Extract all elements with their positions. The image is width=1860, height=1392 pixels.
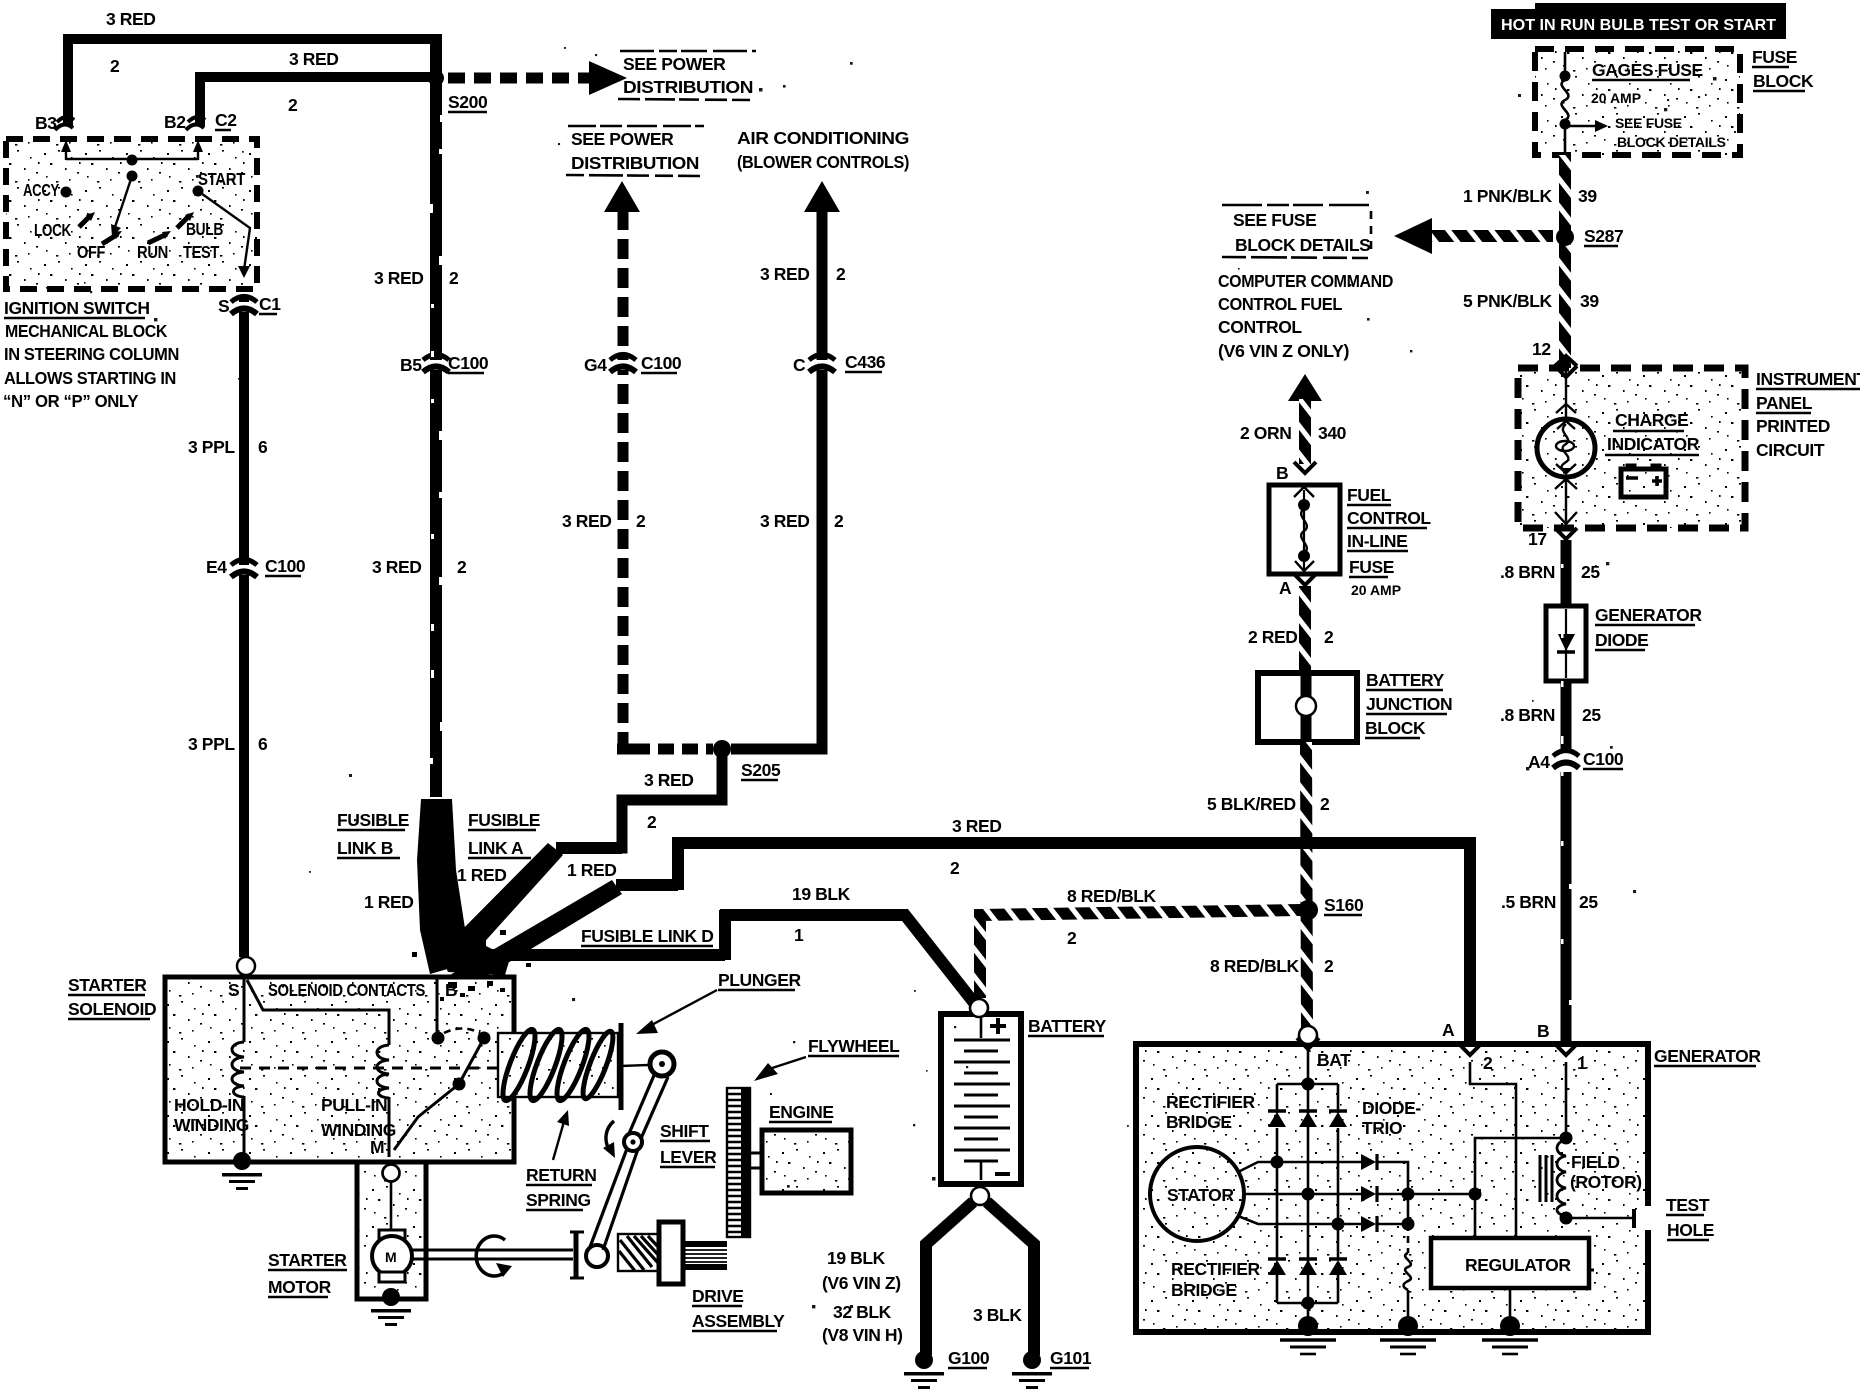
svg-text:(V6 VIN Z ONLY): (V6 VIN Z ONLY) [1218,341,1349,361]
svg-text:PLUNGER: PLUNGER [718,970,802,990]
svg-text:TRIO: TRIO [1362,1118,1402,1138]
svg-text:1 RED: 1 RED [364,892,414,912]
svg-text:SPRING: SPRING [526,1190,591,1210]
svg-text:2 RED: 2 RED [1248,627,1298,647]
svg-text:DISTRIBUTION: DISTRIBUTION [623,77,753,97]
svg-text:340: 340 [1318,423,1347,443]
svg-text:SOLENOID CONTACTS: SOLENOID CONTACTS [268,980,425,1000]
svg-text:STARTER: STARTER [268,1250,347,1270]
svg-text:A: A [1279,578,1292,598]
svg-text:8 RED/BLK: 8 RED/BLK [1067,886,1157,906]
svg-text:3 RED: 3 RED [372,557,422,577]
svg-text:2: 2 [636,511,646,531]
svg-text:C2: C2 [215,110,237,130]
svg-text:2: 2 [110,56,120,76]
svg-text:RECTIFIER: RECTIFIER [1171,1259,1261,1279]
svg-text:19 BLK: 19 BLK [827,1248,886,1268]
svg-text:IN STEERING COLUMN: IN STEERING COLUMN [4,344,179,364]
svg-text:BATTERY: BATTERY [1366,670,1445,690]
svg-text:LOCK: LOCK [34,220,72,240]
svg-text:FUSIBLE: FUSIBLE [468,810,540,830]
svg-text:S160: S160 [1324,895,1364,915]
svg-text:WINDING: WINDING [321,1120,396,1140]
svg-text:17: 17 [1528,529,1547,549]
svg-text:ENGINE: ENGINE [769,1102,834,1122]
svg-text:CONTROL FUEL: CONTROL FUEL [1218,294,1343,314]
svg-text:S: S [218,296,229,316]
svg-text:B: B [1537,1021,1549,1041]
svg-text:3 RED: 3 RED [760,511,810,531]
svg-text:G100: G100 [948,1348,990,1368]
svg-text:IGNITION SWITCH: IGNITION SWITCH [4,298,150,318]
svg-text:1 PNK/BLK: 1 PNK/BLK [1463,186,1553,206]
svg-text:FUSIBLE: FUSIBLE [337,810,409,830]
svg-text:B: B [1276,463,1288,483]
svg-text:2 ORN: 2 ORN [1240,423,1291,443]
svg-text:RUN: RUN [137,242,168,262]
svg-text:2: 2 [1324,956,1334,976]
svg-text:OFF: OFF [77,242,106,262]
svg-text:20 AMP: 20 AMP [1351,582,1401,598]
svg-text:M: M [385,1249,397,1265]
svg-text:GENERATOR: GENERATOR [1654,1046,1761,1066]
svg-text:B: B [445,980,457,1000]
svg-text:8 RED/BLK: 8 RED/BLK [1210,956,1300,976]
svg-text:6: 6 [258,437,268,457]
svg-text:IN-LINE: IN-LINE [1347,531,1407,551]
svg-text:2: 2 [449,268,459,288]
svg-text:STATOR: STATOR [1167,1185,1234,1205]
svg-text:5 PNK/BLK: 5 PNK/BLK [1463,291,1553,311]
svg-text:SEE FUSE: SEE FUSE [1233,210,1316,230]
svg-text:FUSIBLE LINK D: FUSIBLE LINK D [581,926,713,946]
svg-text:A: A [1442,1020,1455,1040]
svg-text:(ROTOR): (ROTOR) [1570,1172,1642,1192]
svg-text:5 BLK/RED: 5 BLK/RED [1207,794,1296,814]
svg-text:3 RED: 3 RED [760,264,810,284]
svg-text:G4: G4 [584,355,607,375]
svg-text:SOLENOID: SOLENOID [68,999,156,1019]
svg-text:6: 6 [258,734,268,754]
svg-text:32 BLK: 32 BLK [833,1302,892,1322]
svg-text:1 RED: 1 RED [457,865,507,885]
svg-text:SEE POWER: SEE POWER [623,54,726,74]
svg-text:2: 2 [1324,627,1334,647]
svg-text:HOLD-IN: HOLD-IN [174,1095,244,1115]
svg-text:3 RED: 3 RED [644,770,694,790]
svg-text:(BLOWER CONTROLS): (BLOWER CONTROLS) [737,152,909,172]
svg-text:C100: C100 [641,353,682,373]
svg-text:3 PPL: 3 PPL [188,437,235,457]
svg-text:BLOCK DETAILS: BLOCK DETAILS [1235,235,1370,255]
svg-text:BLOCK DETAILS: BLOCK DETAILS [1617,134,1726,150]
svg-text:ACCY: ACCY [23,180,60,200]
svg-text:A4: A4 [1528,752,1550,772]
svg-text:C: C [793,355,806,375]
svg-text:FUSE: FUSE [1752,47,1797,67]
svg-text:WINDING: WINDING [174,1115,249,1135]
svg-text:39: 39 [1578,186,1597,206]
svg-text:1 RED: 1 RED [567,860,617,880]
svg-text:JUNCTION: JUNCTION [1366,694,1452,714]
svg-text:2: 2 [647,812,657,832]
svg-text:12: 12 [1532,339,1551,359]
svg-text:S200: S200 [448,92,488,112]
svg-text:ASSEMBLY: ASSEMBLY [692,1311,785,1331]
svg-text:CONTROL: CONTROL [1218,317,1302,337]
svg-text:LEVER: LEVER [660,1147,717,1167]
svg-text:GAGES FUSE: GAGES FUSE [1592,60,1703,80]
svg-text:3 RED: 3 RED [952,816,1002,836]
svg-text:GENERATOR: GENERATOR [1595,605,1702,625]
svg-text:MOTOR: MOTOR [268,1277,332,1297]
svg-text:BAT: BAT [1317,1050,1351,1070]
svg-text:G101: G101 [1050,1348,1092,1368]
svg-text:LINK A: LINK A [468,838,524,858]
svg-text:.5 BRN: .5 BRN [1501,892,1556,912]
svg-text:DRIVE: DRIVE [692,1286,743,1306]
svg-text:INDICATOR: INDICATOR [1607,434,1700,454]
svg-text:25: 25 [1579,892,1598,912]
svg-text:STARTER: STARTER [68,975,147,995]
svg-text:25: 25 [1582,705,1601,725]
svg-text:3 BLK: 3 BLK [973,1305,1022,1325]
svg-text:S205: S205 [741,760,781,780]
svg-text:1: 1 [794,925,804,945]
svg-text:C100: C100 [1583,749,1624,769]
svg-text:B5: B5 [400,355,422,375]
svg-text:BLOCK: BLOCK [1753,71,1814,91]
svg-text:E4: E4 [206,557,227,577]
svg-text:SHIFT: SHIFT [660,1121,709,1141]
svg-text:2: 2 [836,264,846,284]
svg-text:FIELD: FIELD [1571,1152,1620,1172]
svg-text:2: 2 [1320,794,1330,814]
svg-text:ALLOWS STARTING IN: ALLOWS STARTING IN [4,368,176,388]
svg-text:HOLE: HOLE [1667,1220,1714,1240]
svg-text:START: START [198,169,246,189]
svg-text:CHARGE: CHARGE [1615,410,1688,430]
svg-text:HOT IN RUN BULB TEST OR START: HOT IN RUN BULB TEST OR START [1501,17,1776,34]
svg-text:RECTIFIER: RECTIFIER [1166,1092,1256,1112]
svg-text:INSTRUMENT: INSTRUMENT [1756,369,1860,389]
svg-text:CONTROL: CONTROL [1347,508,1431,528]
svg-text:TEST: TEST [1666,1195,1710,1215]
svg-text:REGULATOR: REGULATOR [1465,1255,1571,1275]
svg-text:2: 2 [950,858,960,878]
svg-text:BRIDGE: BRIDGE [1166,1112,1232,1132]
svg-text:BULB: BULB [186,219,223,239]
svg-text:PANEL: PANEL [1756,393,1813,413]
svg-text:LINK B: LINK B [337,838,393,858]
svg-text:M: M [370,1137,384,1157]
svg-text:2: 2 [1067,928,1077,948]
svg-text:S: S [228,980,239,1000]
svg-text:3 RED: 3 RED [562,511,612,531]
svg-text:3 RED: 3 RED [289,49,339,69]
svg-text:“N” OR “P” ONLY: “N” OR “P” ONLY [3,391,139,411]
svg-text:SEE FUSE: SEE FUSE [1615,115,1682,131]
svg-text:AIR CONDITIONING: AIR CONDITIONING [737,128,909,148]
svg-text:3 RED: 3 RED [374,268,424,288]
svg-text:RETURN: RETURN [526,1165,597,1185]
svg-text:2: 2 [288,95,298,115]
svg-text:(V6 VIN Z): (V6 VIN Z) [822,1273,901,1293]
svg-text:C436: C436 [845,352,886,372]
svg-text:BLOCK: BLOCK [1365,718,1426,738]
svg-text:2: 2 [457,557,467,577]
svg-text:B2: B2 [164,112,186,132]
svg-text:FUEL: FUEL [1347,485,1392,505]
svg-text:BRIDGE: BRIDGE [1171,1280,1237,1300]
svg-text:DIODE-: DIODE- [1362,1098,1421,1118]
svg-text:25: 25 [1581,562,1600,582]
svg-text:S287: S287 [1584,226,1623,246]
svg-text:DIODE: DIODE [1595,630,1648,650]
svg-text:.8 BRN: .8 BRN [1500,705,1555,725]
svg-text:2: 2 [1483,1053,1493,1073]
svg-text:FLYWHEEL: FLYWHEEL [808,1036,900,1056]
svg-text:PRINTED: PRINTED [1756,416,1830,436]
svg-text:SEE POWER: SEE POWER [571,129,674,149]
svg-text:20 AMP: 20 AMP [1591,90,1641,106]
svg-text:3 PPL: 3 PPL [188,734,235,754]
svg-text:FUSE: FUSE [1349,557,1394,577]
svg-text:B3: B3 [35,113,57,133]
svg-text:39: 39 [1580,291,1599,311]
svg-text:COMPUTER COMMAND: COMPUTER COMMAND [1218,271,1393,291]
svg-text:TEST: TEST [183,242,220,262]
svg-text:MECHANICAL BLOCK: MECHANICAL BLOCK [5,321,168,341]
svg-text:3 RED: 3 RED [106,9,156,29]
svg-text:2: 2 [834,511,844,531]
svg-text:C100: C100 [265,556,306,576]
svg-text:CIRCUIT: CIRCUIT [1756,440,1825,460]
svg-text:.8 BRN: .8 BRN [1500,562,1555,582]
svg-text:DISTRIBUTION: DISTRIBUTION [571,153,699,173]
svg-text:19 BLK: 19 BLK [792,884,851,904]
svg-text:BATTERY: BATTERY [1028,1016,1107,1036]
svg-text:PULL-IN: PULL-IN [321,1095,387,1115]
svg-text:C1: C1 [259,294,281,314]
svg-text:(V8 VIN H): (V8 VIN H) [822,1325,903,1345]
svg-text:1: 1 [1577,1053,1587,1073]
svg-text:C100: C100 [448,353,489,373]
